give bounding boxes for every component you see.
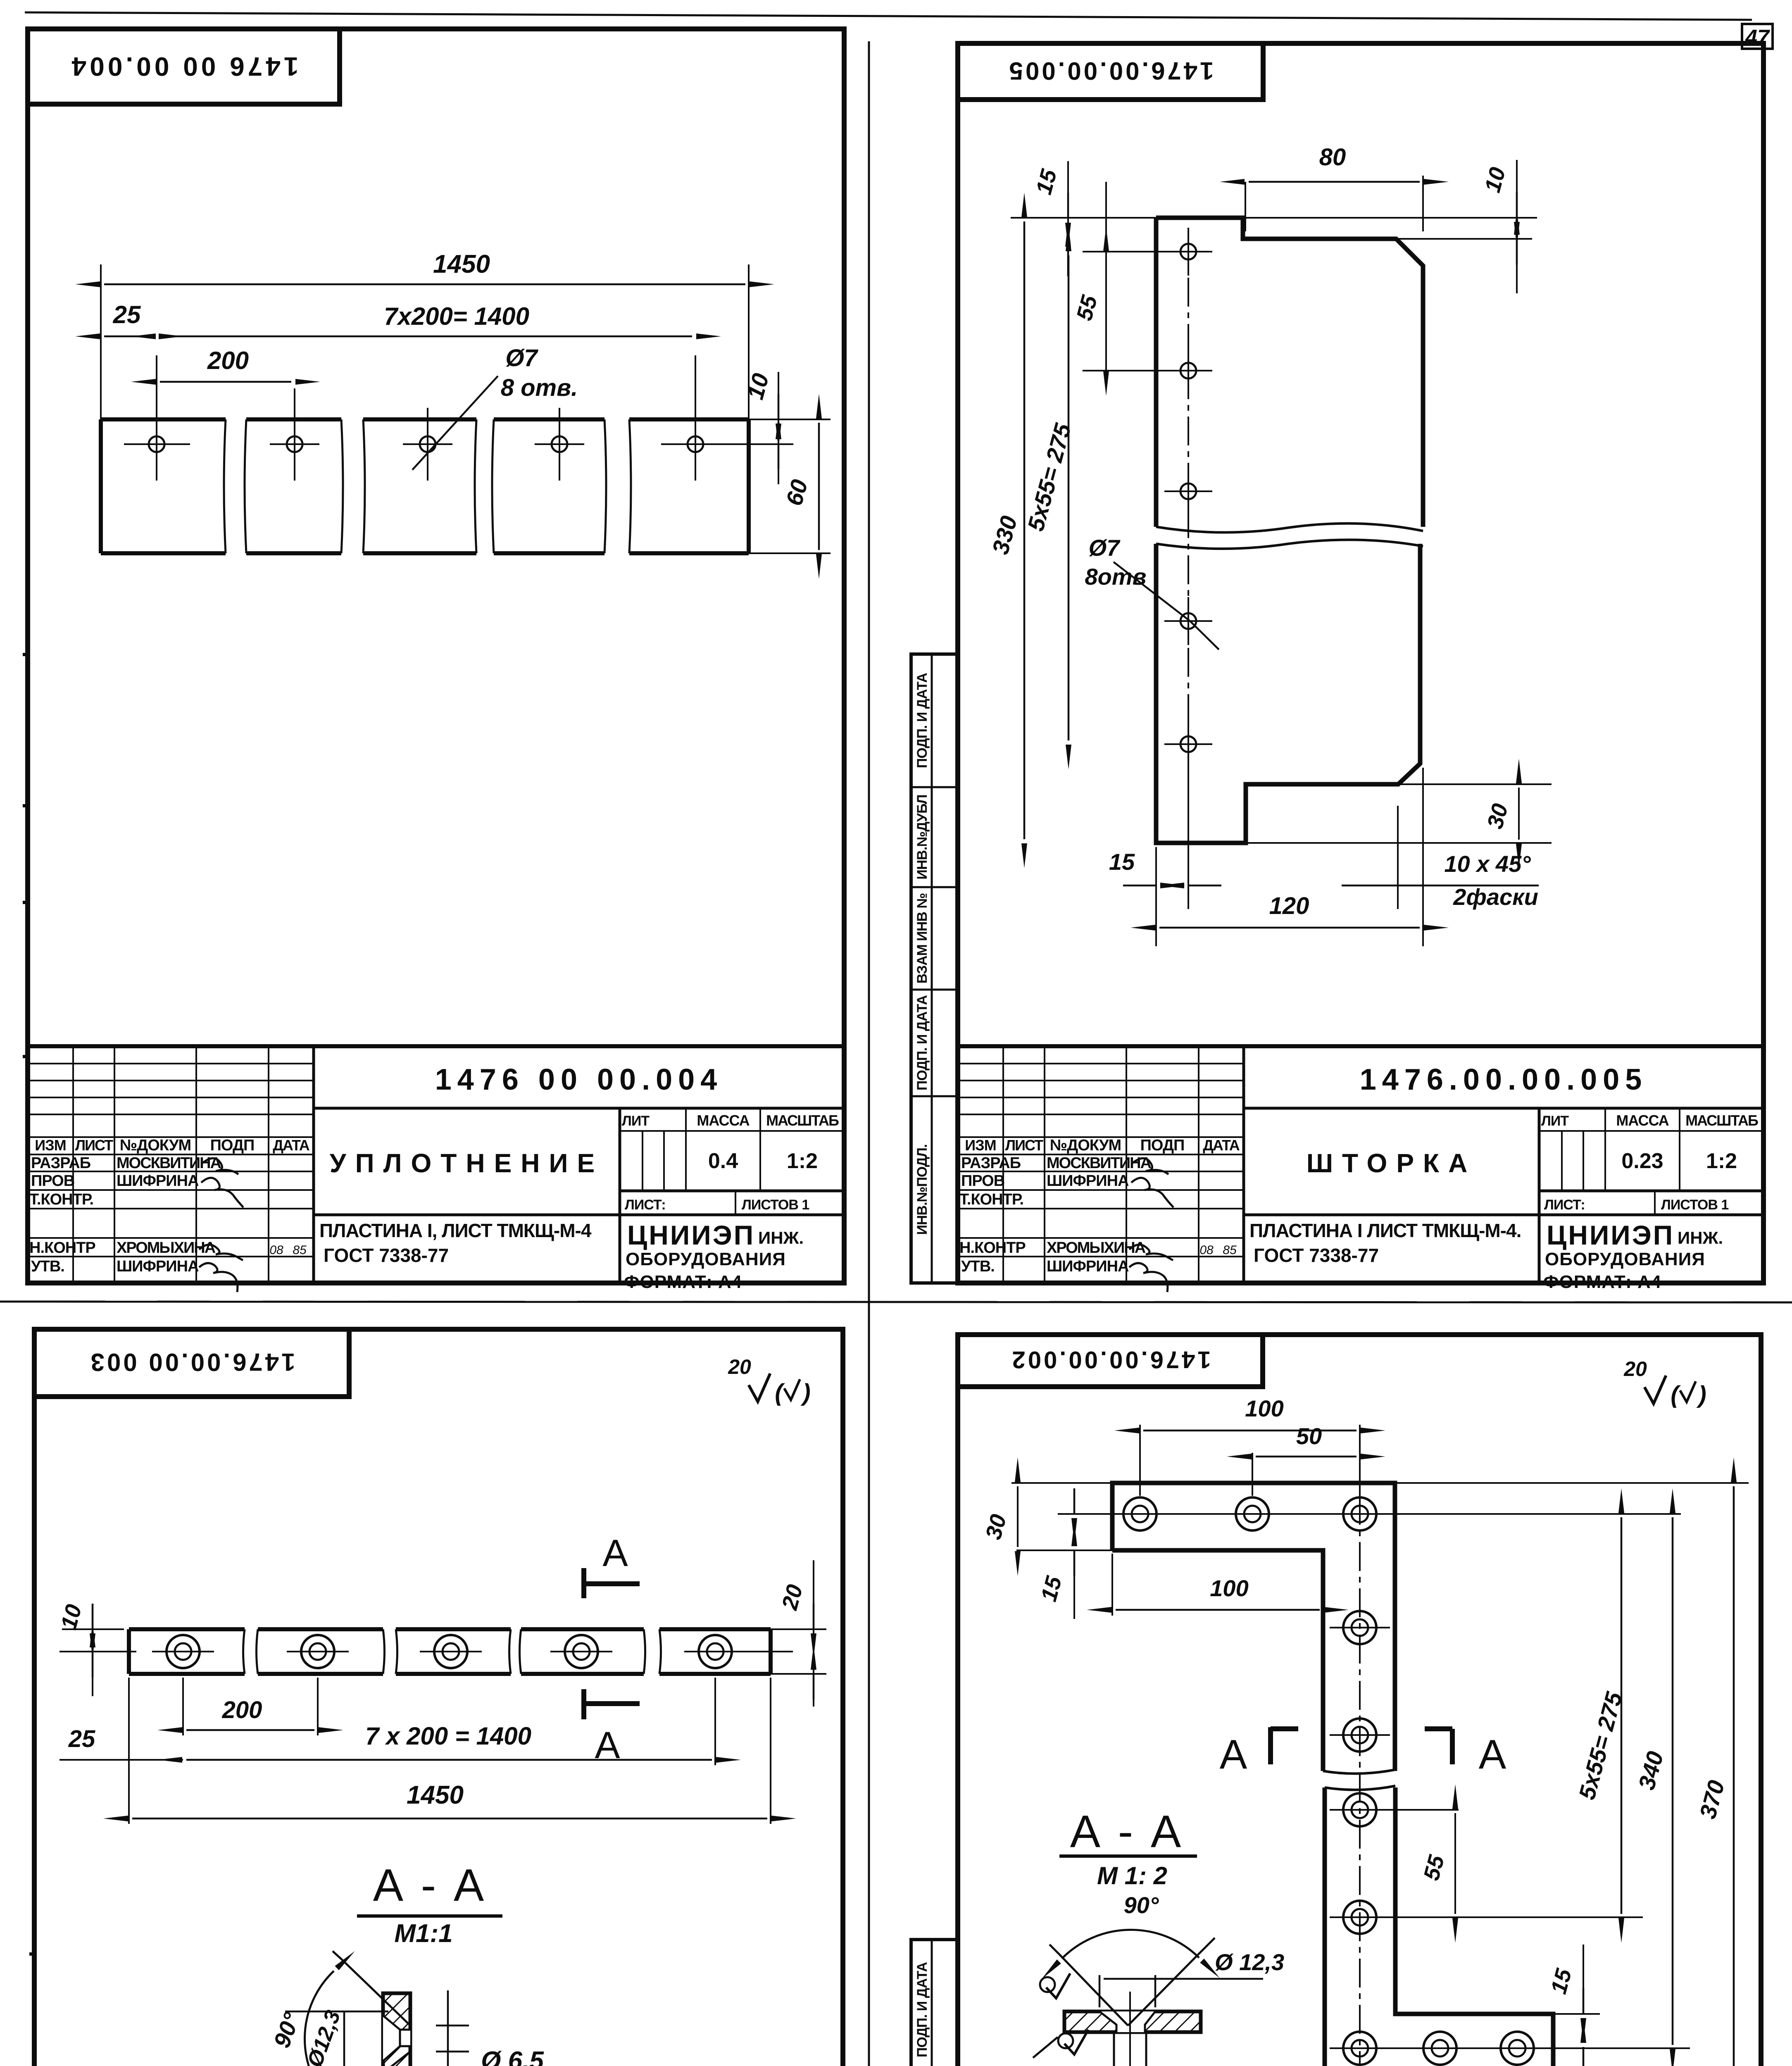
- dimension 370: [1395, 1482, 1749, 1484]
- svg-text:ПРОВ: ПРОВ: [961, 1172, 1004, 1190]
- svg-text:РАЗРАБ: РАЗРАБ: [31, 1154, 90, 1172]
- svg-text:ФОРМАТ: А4: ФОРМАТ: А4: [624, 1272, 742, 1292]
- svg-text:УТВ.: УТВ.: [961, 1258, 995, 1275]
- dimension 200: [182, 1678, 184, 1735]
- dimension 330: [1023, 221, 1026, 839]
- svg-text:ЛИСТ:: ЛИСТ:: [1544, 1197, 1585, 1213]
- svg-text:Ø 12,3: Ø 12,3: [1215, 1949, 1284, 1975]
- svg-text:7x200= 1400: 7x200= 1400: [384, 302, 529, 330]
- title block grid: [958, 1046, 1763, 1283]
- dimension 5x55=275: [1068, 255, 1070, 740]
- svg-text:ЦНИИЭП: ЦНИИЭП: [627, 1220, 755, 1250]
- svg-text:ЛИТ: ЛИТ: [1541, 1113, 1569, 1129]
- svg-text:1450: 1450: [407, 1781, 464, 1809]
- svg-text:20: 20: [1623, 1357, 1647, 1381]
- countersunk holes row: [175, 1643, 191, 1660]
- svg-text:8 отв.: 8 отв.: [501, 374, 578, 401]
- svg-text:2фаски: 2фаски: [1453, 884, 1538, 910]
- dimension 7x200=1400: [156, 355, 157, 428]
- svg-text:А: А: [1220, 1731, 1247, 1778]
- svg-text:0.23: 0.23: [1621, 1149, 1663, 1173]
- signatures: [1131, 1158, 1168, 1174]
- svg-text:ЛИСТОВ 1: ЛИСТОВ 1: [742, 1197, 809, 1213]
- dimension 100 (inner): [1116, 1609, 1320, 1611]
- centerline extensions left/right: [59, 1651, 136, 1652]
- svg-text:ЦНИИЭП: ЦНИИЭП: [1547, 1220, 1674, 1250]
- svg-text:ЛИСТОВ 1: ЛИСТОВ 1: [1661, 1197, 1728, 1213]
- svg-text:8отв: 8отв: [1085, 564, 1147, 590]
- part: planka strip segments: [129, 1627, 245, 1631]
- dimension 20 (right): [771, 1628, 826, 1630]
- svg-text:ГОСТ 7338-77: ГОСТ 7338-77: [1254, 1245, 1379, 1266]
- svg-text:А: А: [1479, 1731, 1506, 1778]
- label 10x45 2 faski: [1342, 885, 1539, 887]
- svg-text:Т.КОНТР.: Т.КОНТР.: [29, 1191, 93, 1208]
- svg-text:Т.КОНТР.: Т.КОНТР.: [959, 1191, 1023, 1208]
- svg-text:ДАТА: ДАТА: [1203, 1137, 1240, 1154]
- svg-text:МОСКВИТИНА: МОСКВИТИНА: [117, 1154, 221, 1172]
- vertical arm holes: [1352, 1619, 1368, 1636]
- dimension 5x55=275: [1376, 1916, 1643, 1918]
- svg-text:200: 200: [222, 1697, 262, 1723]
- svg-text:ШИФРИНА: ШИФРИНА: [1047, 1172, 1129, 1190]
- svg-text:ПОДП. И ДАТА: ПОДП. И ДАТА: [914, 1962, 930, 2057]
- svg-text:90°: 90°: [1124, 1892, 1159, 1918]
- roughness symbols (sheet 4): [1046, 1973, 1070, 1998]
- svg-text:РАЗРАБ: РАЗРАБ: [961, 1154, 1021, 1172]
- dimension 10 (right top): [1516, 160, 1518, 293]
- svg-text:47: 47: [1745, 26, 1770, 50]
- dimension 1450: [100, 264, 102, 419]
- svg-text:ШИФРИНА: ШИФРИНА: [117, 1172, 199, 1190]
- svg-text:Ø7: Ø7: [505, 345, 538, 371]
- svg-text:№ДОКУМ: №ДОКУМ: [1050, 1137, 1121, 1154]
- top row horizontal centerline: [1116, 1513, 1681, 1515]
- svg-text:Ø7: Ø7: [1089, 535, 1121, 561]
- svg-text:ФОРМАТ: А4: ФОРМАТ: А4: [1543, 1272, 1661, 1292]
- bottom dimension 120: [1155, 847, 1157, 946]
- svg-text:ПРОВ: ПРОВ: [31, 1172, 74, 1190]
- dimension 30 (right bottom): [1398, 783, 1552, 785]
- horizontal cut line between sheet rows: [0, 1302, 1792, 1302]
- countersink leader lines (90 deg cone): [342, 1959, 410, 2026]
- svg-text:ИЗМ: ИЗМ: [965, 1137, 996, 1154]
- section bar hatched (sheet 4): [1064, 2011, 1201, 2032]
- svg-text:МАССА: МАССА: [697, 1112, 750, 1129]
- sheet 3 doc label box (rotated): [34, 1329, 349, 1397]
- dimension 15 (bottom right): [1395, 2013, 1600, 2015]
- dimension 55 (right of arm): [1376, 1809, 1459, 1811]
- svg-text:ИНЖ.: ИНЖ.: [758, 1228, 804, 1247]
- svg-text:1:2: 1:2: [787, 1149, 818, 1173]
- dim d12.3: [285, 2011, 388, 2013]
- svg-text:1476.00.00 003: 1476.00.00 003: [88, 1348, 295, 1376]
- hole below bar: [1113, 2032, 1115, 2066]
- svg-text:ВЗАМ ИНВ №: ВЗАМ ИНВ №: [914, 893, 930, 984]
- dimension 1450: [128, 1678, 130, 1824]
- top edge extension lines: [1011, 217, 1537, 219]
- break wavy edges: [1323, 1770, 1395, 1773]
- dimension 55 (left): [1105, 182, 1107, 380]
- svg-text:ПОДП. И ДАТА: ПОДП. И ДАТА: [914, 673, 930, 768]
- sheet 4 frame (Nakladka): [958, 1335, 1761, 2066]
- svg-text:ОБОРУДОВАНИЯ: ОБОРУДОВАНИЯ: [626, 1249, 786, 1269]
- title block grid: [28, 1046, 844, 1283]
- signatures: [201, 1158, 238, 1174]
- sheet 4 doc label box (rotated): [958, 1335, 1263, 1387]
- svg-text:А: А: [602, 1532, 628, 1574]
- svg-text:100: 100: [1245, 1395, 1283, 1421]
- holes d7 column: [1180, 244, 1196, 259]
- svg-text:№ДОКУМ: №ДОКУМ: [120, 1137, 191, 1154]
- svg-text:20: 20: [728, 1355, 751, 1378]
- dimension 340: [1672, 1517, 1674, 2045]
- svg-text:УТВ.: УТВ.: [31, 1258, 64, 1275]
- svg-text:1450: 1450: [433, 250, 490, 278]
- svg-text:1476.00.00.002: 1476.00.00.002: [1009, 1346, 1211, 1373]
- vertical centerline of holes (dash-dot): [1188, 231, 1189, 868]
- svg-text:1476.00.00.005: 1476.00.00.005: [1007, 57, 1214, 85]
- dimension 10 (left): [92, 1607, 93, 1696]
- sheet 1 frame (Uplotnenie): [28, 29, 844, 1283]
- holes d7 with crosshairs: [149, 436, 164, 452]
- svg-text:ИНВ.№ДУБЛ: ИНВ.№ДУБЛ: [914, 795, 930, 879]
- break wavy edges: [1156, 524, 1423, 533]
- svg-text:25: 25: [113, 301, 141, 328]
- svg-text:Н.КОНТР: Н.КОНТР: [959, 1239, 1026, 1257]
- svg-text:1476.00.00.005: 1476.00.00.005: [1360, 1063, 1647, 1096]
- page top cut line: [25, 12, 1752, 20]
- dim d6.5 8 holes: [447, 1990, 449, 2066]
- right dimensions 10 and 60: [749, 419, 831, 420]
- label d7 8 holes with leader: [1114, 562, 1190, 621]
- svg-text:0.4: 0.4: [708, 1149, 738, 1173]
- hole centerline extensions: [124, 443, 190, 445]
- svg-text:А - А: А - А: [373, 1860, 487, 1911]
- svg-text:200: 200: [207, 347, 249, 374]
- 90 degree cone lines: [1059, 1954, 1128, 2026]
- svg-text:ШТОРКА: ШТОРКА: [1307, 1148, 1477, 1178]
- dimension 15 (left): [1058, 1513, 1116, 1515]
- svg-text:ПЛАСТИНА I, ЛИСТ ТМКЩ-М-4: ПЛАСТИНА I, ЛИСТ ТМКЩ-М-4: [319, 1220, 592, 1241]
- sheet 2 doc label box (rotated): [958, 43, 1263, 100]
- svg-text:ПОДП. И ДАТА: ПОДП. И ДАТА: [914, 995, 930, 1090]
- vertical cut line between sheet columns: [868, 41, 870, 2066]
- part: shtorka outline lower piece: [1156, 544, 1420, 843]
- svg-text:Н.КОНТР: Н.КОНТР: [29, 1239, 95, 1257]
- section A-A cut marks: [581, 1568, 586, 1598]
- svg-text:ШИФРИНА: ШИФРИНА: [117, 1258, 199, 1275]
- dimension 7x200=1400 + 25: [714, 1678, 716, 1765]
- svg-text:ЛИТ: ЛИТ: [622, 1113, 650, 1129]
- svg-text:85: 85: [293, 1243, 307, 1257]
- dimension 50 (top): [1252, 1453, 1253, 1496]
- svg-text:М1:1: М1:1: [394, 1919, 452, 1948]
- svg-text:ЛИСТ: ЛИСТ: [1005, 1137, 1043, 1154]
- svg-text:50: 50: [1296, 1423, 1322, 1449]
- svg-text:08: 08: [269, 1243, 283, 1257]
- svg-text:ИНВ.№ПОДЛ.: ИНВ.№ПОДЛ.: [914, 1145, 930, 1235]
- svg-text:85: 85: [1223, 1243, 1237, 1257]
- svg-text:М 1: 2: М 1: 2: [1097, 1862, 1167, 1890]
- dimension 100 (top): [1139, 1425, 1141, 1496]
- svg-text:1476 00 00.004: 1476 00 00.004: [435, 1063, 723, 1096]
- svg-text:ПОДП: ПОДП: [210, 1137, 255, 1154]
- sheet 2 frame (Shtorka): [958, 43, 1763, 1283]
- vertical centerline dash-dot: [1359, 1496, 1361, 2066]
- svg-text:ИНЖ.: ИНЖ.: [1678, 1228, 1723, 1247]
- svg-text:1:2: 1:2: [1706, 1149, 1737, 1173]
- svg-text:ПЛАСТИНА I ЛИСТ ТМКЩ-М-4.: ПЛАСТИНА I ЛИСТ ТМКЩ-М-4.: [1249, 1220, 1521, 1241]
- svg-text:МАССА: МАССА: [1616, 1112, 1669, 1129]
- part: shtorka outline upper piece: [1156, 218, 1423, 527]
- svg-text:ЛИСТ:: ЛИСТ:: [625, 1197, 666, 1213]
- part: gasket strip segments: [101, 417, 226, 421]
- svg-text:МАСШТАБ: МАСШТАБ: [766, 1112, 839, 1129]
- part: nakladka lower piece outline: [1325, 1788, 1553, 2066]
- svg-text:ДАТА: ДАТА: [273, 1137, 310, 1154]
- svg-text:ПОДП: ПОДП: [1140, 1137, 1185, 1154]
- sheet 3 frame tick marks: [29, 1952, 34, 1956]
- page number 47 box: [1742, 24, 1773, 49]
- svg-text:08: 08: [1199, 1243, 1214, 1257]
- svg-text:ИЗМ: ИЗМ: [35, 1137, 66, 1154]
- svg-text:МАСШТАБ: МАСШТАБ: [1685, 1112, 1758, 1129]
- dimension 80: [1245, 182, 1246, 231]
- svg-text:Ø 6.5: Ø 6.5: [481, 2047, 544, 2066]
- svg-text:Ø 6,5: Ø 6,5: [1180, 2062, 1241, 2066]
- svg-text:ОБОРУДОВАНИЯ: ОБОРУДОВАНИЯ: [1545, 1249, 1705, 1269]
- margin strip boxes: [911, 1940, 958, 2066]
- dim d12.3 (sheet 4): [1099, 1975, 1101, 2007]
- sheet 1 doc label box (rotated): [28, 29, 340, 104]
- svg-text:ШИФРИНА: ШИФРИНА: [1047, 1258, 1129, 1275]
- part: nakladka upper piece outline: [1112, 1483, 1395, 1771]
- svg-text:80: 80: [1319, 144, 1346, 171]
- label diam 7, 8 holes: [412, 376, 498, 470]
- bottom dimension 15: [1188, 769, 1189, 909]
- svg-text:МОСКВИТИНА: МОСКВИТИНА: [1047, 1154, 1152, 1172]
- svg-text:УПЛОТНЕНИЕ: УПЛОТНЕНИЕ: [330, 1148, 604, 1178]
- bottom row holes: [1352, 2040, 1368, 2056]
- svg-text:7 x 200 = 1400: 7 x 200 = 1400: [365, 1722, 531, 1750]
- svg-text:А - А: А - А: [1070, 1806, 1184, 1857]
- sheet 3 frame (Planka): [34, 1329, 843, 2066]
- svg-text:10 x 45°: 10 x 45°: [1444, 851, 1531, 877]
- svg-text:25: 25: [68, 1726, 95, 1752]
- svg-text:100: 100: [1210, 1575, 1248, 1601]
- svg-text:ЛИСТ: ЛИСТ: [75, 1137, 113, 1154]
- svg-text:15: 15: [1109, 849, 1135, 875]
- svg-text:1476 00 00.004: 1476 00 00.004: [69, 52, 299, 81]
- dimension 30 (left): [1011, 1482, 1112, 1484]
- sheet 1 frame tick marks: [23, 653, 28, 656]
- dimension 15 (top left): [1067, 161, 1069, 256]
- svg-text:ГОСТ 7338-77: ГОСТ 7338-77: [324, 1245, 449, 1266]
- section bar hatched: [383, 1993, 410, 2066]
- margin strip boxes: [911, 654, 958, 1283]
- svg-text:120: 120: [1269, 893, 1309, 919]
- countersunk holes top row: [1132, 1506, 1148, 1522]
- dimension 200: [294, 388, 295, 428]
